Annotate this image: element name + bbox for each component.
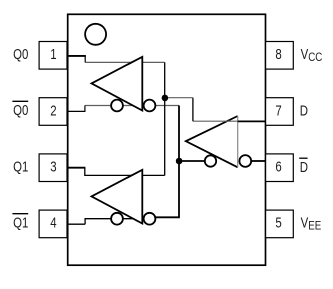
inversion bubble U2 lower output xyxy=(111,213,123,225)
pin 4 box xyxy=(39,210,67,238)
op-amp U3 (D input buffer) xyxy=(186,116,238,167)
inversion bubble U3 output side xyxy=(205,155,216,166)
svg-text:Q0: Q0 xyxy=(13,102,28,119)
wire: Q1bar bubble line xyxy=(85,219,155,225)
overline Q0bar xyxy=(12,100,28,102)
inversion bubble U1 lower output xyxy=(111,100,123,112)
pin 7 box xyxy=(266,98,294,126)
inversion bubble U1 input side xyxy=(144,100,156,112)
wire: Q1bar stub pin 4 xyxy=(67,223,85,225)
svg-text:5: 5 xyxy=(275,214,281,231)
svg-text:Q1: Q1 xyxy=(13,214,28,231)
pin 8 box xyxy=(266,42,294,70)
wire: pin 1 step xyxy=(84,55,86,62)
svg-text:Q0: Q0 xyxy=(13,46,28,63)
svg-text:D: D xyxy=(300,102,308,119)
svg-text:7: 7 xyxy=(275,102,281,119)
wire: D net vertical jog xyxy=(192,98,194,122)
svg-text:4: 4 xyxy=(50,214,56,231)
svg-text:6: 6 xyxy=(275,158,281,175)
wire: Q0 stub pin 1 xyxy=(67,55,86,57)
pin 2 box xyxy=(39,98,67,126)
svg-text:3: 3 xyxy=(50,158,56,175)
wire: D net from U3 to fanout column xyxy=(193,120,238,122)
wire: Q0bar stub pin 2 xyxy=(67,110,85,112)
pin 6 box xyxy=(266,154,294,182)
wire: D pin 7 to U3 xyxy=(238,120,266,122)
wire: Q1 net horizontal behind gate U2 xyxy=(85,168,165,176)
pin 3 box xyxy=(39,154,67,182)
wire: Dbar vertical bus xyxy=(155,106,179,218)
svg-text:2: 2 xyxy=(50,102,56,119)
overline Dbar xyxy=(299,157,307,159)
overline Q1bar xyxy=(12,213,28,215)
pin-1 orientation circle xyxy=(85,24,106,45)
IC body xyxy=(68,14,266,265)
svg-text:8: 8 xyxy=(275,46,281,63)
wire: Dbar horizontal to U3 bubble xyxy=(179,160,205,162)
wire: Q0bar bubble line xyxy=(85,105,179,107)
wire: Dbar pin 6 to U3 input bubble xyxy=(251,160,266,162)
wire: pin 2 step xyxy=(84,106,86,113)
wire: Q0 net horizontal behind gate U1 xyxy=(85,61,165,63)
svg-text:Q1: Q1 xyxy=(13,158,28,175)
wire: U3 right edge (gray) xyxy=(237,116,239,167)
junction dot node D xyxy=(162,95,169,102)
wire: D net to fanout dot xyxy=(165,97,193,99)
pin 1 box xyxy=(39,42,67,70)
svg-text:1: 1 xyxy=(50,46,56,63)
wire: D fanout vertical xyxy=(164,62,166,175)
inversion bubble U2 input side xyxy=(144,213,156,225)
inversion bubble U3 input side xyxy=(239,155,251,167)
svg-text:D: D xyxy=(300,159,308,176)
pin 5 box xyxy=(266,210,294,238)
op-amp U1 (Q0/Q0bar output buffer) xyxy=(92,57,143,111)
junction dot node Dbar xyxy=(176,158,183,165)
wire: Q1 stub pin 3 xyxy=(67,167,85,169)
op-amp U2 (Q1/Q1bar output buffer) xyxy=(92,170,143,224)
